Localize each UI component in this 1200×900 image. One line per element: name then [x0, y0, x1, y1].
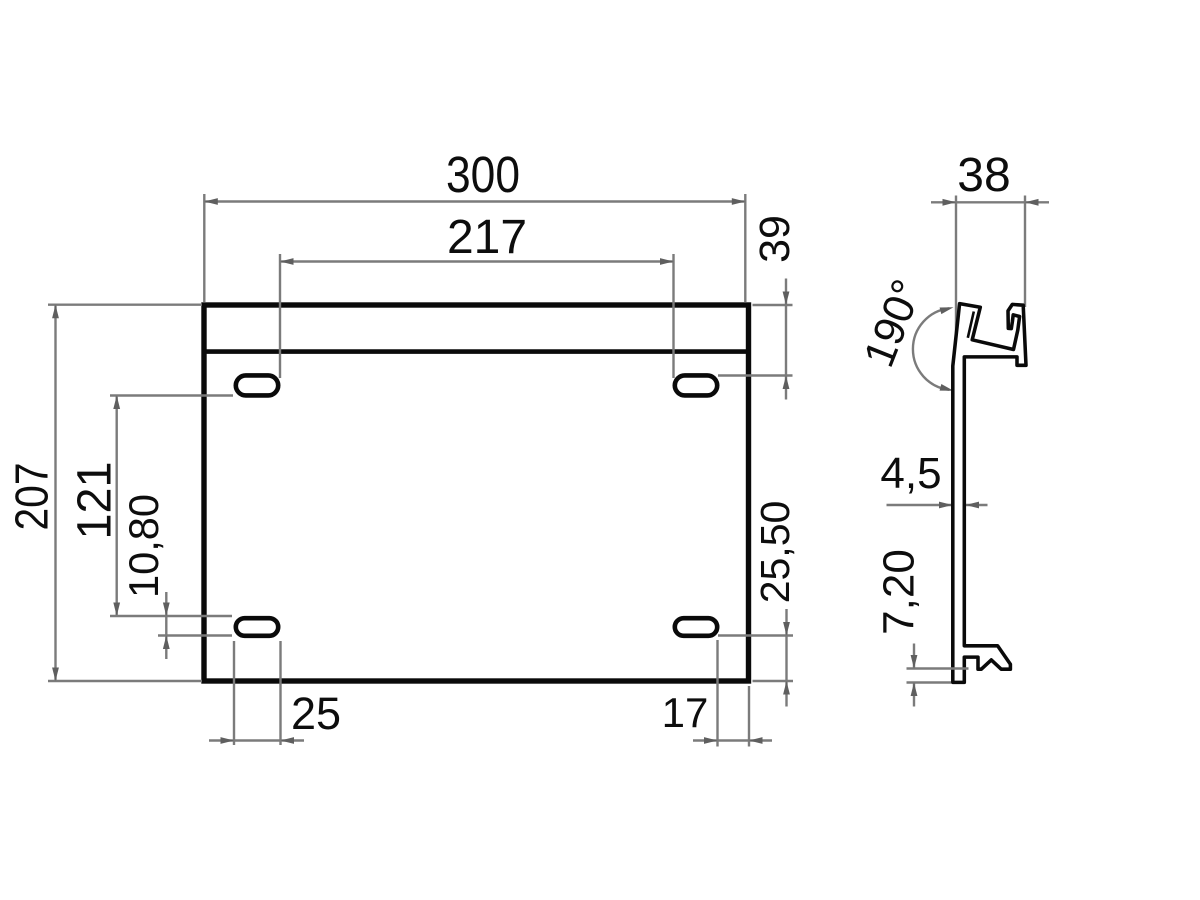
dim 217 extension line left	[279, 254, 281, 378]
dim 39 extension line bottom	[718, 374, 793, 376]
dim 17 text	[662, 689, 709, 736]
dim 17 line	[693, 737, 772, 744]
dim 38 text	[957, 149, 1010, 202]
dim 10,80 extension line bottom	[158, 634, 232, 636]
dim 217 text	[447, 211, 527, 264]
dim 39 text	[751, 215, 799, 263]
svg-text:17: 17	[662, 689, 709, 736]
dim 38 line	[931, 199, 1049, 206]
dim 10,80 arrows	[163, 592, 170, 659]
dim 300 text	[446, 146, 520, 203]
profile lip inner edge	[968, 312, 974, 338]
dim 300 extension line left	[203, 194, 205, 302]
dim 7,20 text	[875, 549, 924, 635]
dim 39 extension line top	[753, 304, 793, 306]
dim 7,20 extension line top	[907, 667, 969, 669]
svg-text:217: 217	[447, 211, 527, 264]
profile cross-section outline	[953, 304, 1026, 683]
svg-text:10,80: 10,80	[120, 494, 167, 598]
dim 25,50 text	[752, 501, 798, 604]
dim 300 line	[204, 198, 745, 205]
dim 207 extension line bottom	[48, 680, 202, 682]
dim 25,50 line	[783, 609, 790, 707]
dim 25 extension line right	[279, 641, 281, 745]
dim 121 text	[69, 462, 122, 540]
slot hole top-left	[236, 375, 278, 395]
svg-text:25: 25	[291, 688, 341, 739]
dim 300 extension line right	[744, 194, 746, 302]
dim 207 text	[6, 463, 58, 531]
svg-text:25,50: 25,50	[752, 501, 798, 604]
dim 25,50 extension line top	[718, 634, 793, 636]
dim 7,20 extension line bottom	[907, 681, 952, 683]
dim 38 extension line right	[1024, 196, 1026, 308]
dim 190 degree arc	[913, 304, 954, 394]
dim 38 extension line left	[955, 196, 957, 365]
dim 25 text	[291, 688, 341, 739]
plate front view outline	[204, 305, 749, 681]
dim 190 degree text	[855, 273, 932, 373]
svg-text:300: 300	[446, 146, 520, 203]
svg-text:7,20: 7,20	[875, 549, 924, 635]
dim 121 extension line top	[110, 394, 233, 396]
svg-text:38: 38	[957, 149, 1010, 202]
dim 25 extension line left	[233, 641, 235, 745]
plate top fold line	[204, 349, 749, 354]
svg-text:4,5: 4,5	[880, 449, 941, 498]
dim 39 line	[783, 279, 790, 400]
dim 4,5 text	[880, 449, 941, 498]
dim 121 line	[113, 396, 120, 617]
dim 25,50 extension line bottom	[753, 680, 794, 682]
svg-text:39: 39	[751, 215, 799, 263]
dim 10,80 extension line top	[110, 615, 232, 617]
svg-text:121: 121	[69, 462, 122, 540]
dim 4,5 line	[887, 502, 988, 509]
slot hole bottom-left	[236, 618, 278, 636]
svg-text:207: 207	[6, 463, 58, 531]
dim 217 extension line right	[672, 254, 674, 378]
dim 17 extension line left	[716, 640, 718, 747]
dim 25 line	[209, 737, 304, 744]
dim 207 line	[52, 305, 59, 681]
dim 17 extension line right	[748, 686, 750, 747]
dim 217 line	[280, 258, 674, 265]
dim 7,20 arrows	[911, 644, 918, 707]
dim 207 extension line top	[48, 304, 202, 306]
dim 10,80 text	[120, 494, 167, 598]
slot hole top-right	[675, 375, 717, 395]
slot hole bottom-right	[675, 618, 717, 636]
